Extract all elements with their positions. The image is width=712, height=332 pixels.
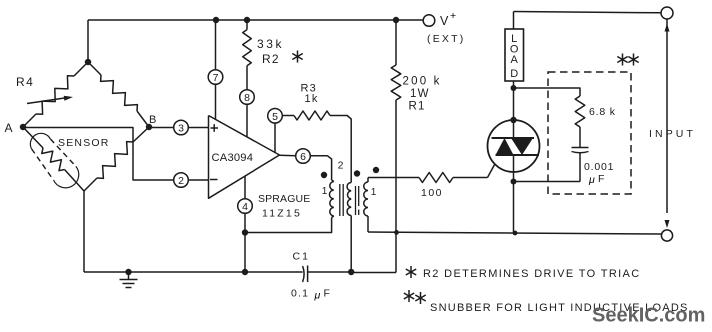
resistor 100 ohm gate: [368, 173, 488, 200]
node triac top terminal: [510, 117, 516, 123]
terminal input bottom: [661, 230, 672, 241]
svg-text:C1: C1: [293, 251, 310, 263]
pin 5 circle and wire: [268, 109, 283, 153]
resistor R3 1k: [282, 83, 351, 183]
wire triac gate: [488, 156, 500, 178]
wire node B to pin3: [149, 127, 174, 129]
svg-text:11Z15: 11Z15: [262, 208, 302, 220]
svg-text:1k: 1k: [305, 93, 319, 105]
node junction triac at AC line: [513, 231, 518, 236]
svg-text:1W: 1W: [410, 88, 430, 100]
svg-text:200 k: 200 k: [403, 76, 442, 88]
asterisk note marker at R2: [297, 51, 299, 63]
svg-text:(EXT): (EXT): [427, 33, 465, 45]
pin 2 circle: [174, 173, 209, 188]
svg-text:5: 5: [272, 111, 278, 123]
svg-text:7: 7: [213, 72, 219, 84]
transformer primary winding: [329, 180, 333, 218]
svg-text:SPRAGUE: SPRAGUE: [258, 193, 310, 205]
node junction winding2 at bottom rail: [348, 269, 354, 275]
svg-text:6.8 k: 6.8 k: [589, 106, 616, 118]
svg-text:V: V: [440, 14, 449, 28]
svg-text:μ: μ: [314, 290, 321, 302]
capacitor C1 0.1uF: [291, 251, 351, 302]
node junction snubber bottom: [511, 179, 517, 185]
svg-text:8: 8: [244, 92, 250, 104]
resistor bridge arm lower-right: [84, 127, 149, 191]
node junction R1 at AC line: [394, 230, 399, 235]
note asterisk R2 determines drive: [406, 266, 641, 280]
wire primary bottom to pin4 branch: [245, 218, 332, 233]
transformer phasing dot secondary: [373, 167, 379, 173]
node junction load bottom: [511, 85, 517, 91]
svg-text:R4: R4: [16, 75, 34, 89]
pin 7 circle and wire: [208, 20, 223, 120]
resistor bridge arm upper-right: [88, 62, 149, 127]
sensor dashed enclosure: [30, 133, 109, 187]
transformer secondary winding: [364, 178, 368, 233]
asterisk pair snubber marker: [617, 54, 638, 66]
transformer phasing dot primary: [321, 172, 327, 178]
svg-text:INPUT: INPUT: [649, 128, 696, 140]
node junction pin4 branch: [242, 229, 248, 235]
svg-text:F: F: [598, 173, 604, 185]
svg-text:SENSOR: SENSOR: [58, 137, 110, 149]
wire top supply rail: [88, 20, 423, 62]
wire bottom ground rail left of C1: [84, 271, 303, 273]
arrow input bottom: [665, 220, 670, 228]
transformer phasing dot winding2: [354, 170, 360, 176]
svg-text:100: 100: [421, 187, 443, 199]
svg-text:4: 4: [242, 201, 248, 213]
wire load top to input terminal: [514, 12, 662, 13]
label SPRAGUE 11Z15: [258, 193, 310, 220]
svg-text:2: 2: [178, 175, 184, 187]
svg-text:0.1: 0.1: [291, 288, 309, 300]
svg-text:1: 1: [322, 186, 328, 197]
svg-text:D: D: [510, 68, 518, 80]
svg-text:+: +: [450, 10, 456, 22]
sensor thermistor bridge arm lower-left: [23, 127, 84, 191]
svg-text:F: F: [324, 288, 330, 300]
svg-text:6: 6: [300, 151, 306, 163]
svg-text:33k: 33k: [257, 37, 284, 51]
triac Q1: [488, 120, 540, 172]
terminal input top: [661, 7, 673, 19]
load block: [505, 12, 524, 89]
op-amp U1 CA3094: [209, 116, 280, 199]
terminal V+ (EXT): [423, 10, 465, 45]
node junction R1 to rail: [393, 17, 399, 23]
svg-text:SeekIC.com: SeekIC.com: [592, 305, 705, 327]
resistor R2 3.3k: [243, 20, 284, 90]
node A: [5, 121, 27, 135]
svg-text:μ: μ: [588, 174, 595, 186]
wire secondary bottom AC line: [368, 232, 662, 234]
node junction pin4 line at bottom rail: [242, 269, 248, 275]
resistor R1 200k 1W: [351, 20, 441, 273]
svg-text:R1: R1: [409, 101, 426, 113]
ground symbol: [120, 269, 138, 288]
svg-text:R2 DETERMINES DRIVE TO TRIAC: R2 DETERMINES DRIVE TO TRIAC: [423, 268, 641, 280]
svg-text:A: A: [511, 54, 519, 66]
capacitor 0.001uF snubber: [572, 148, 615, 187]
svg-text:A: A: [5, 121, 13, 135]
svg-text:3: 3: [178, 123, 184, 135]
node junction pin7 wire to rail: [213, 17, 219, 23]
pin 6 circle and wires: [280, 149, 311, 164]
wire input line vertical: [665, 20, 670, 214]
svg-text:1: 1: [371, 187, 377, 198]
resistor R4 bridge arm upper-left (adjustable): [16, 62, 88, 127]
wire triac main terminal 1: [513, 172, 515, 233]
svg-text:R2: R2: [262, 52, 280, 66]
snubber dashed box: [548, 72, 631, 194]
node junction R2 to rail: [244, 17, 250, 23]
transformer core right pair: [356, 186, 359, 215]
wire bridge bottom to ground rail: [83, 191, 85, 272]
wire node A to pin2: [23, 128, 174, 181]
wire winding2 bottom stem: [350, 216, 352, 273]
transformer feedback winding 2: [347, 183, 351, 216]
pin 4 circle and wire: [238, 176, 253, 272]
note asterisks snubber: [404, 290, 689, 314]
node top of bridge: [85, 59, 91, 65]
resistor 6.8k snubber: [575, 96, 616, 147]
svg-text:0.001: 0.001: [584, 161, 614, 173]
transformer core left pair: [340, 184, 343, 216]
svg-text:2: 2: [338, 160, 344, 172]
wire snubber top: [514, 88, 581, 96]
svg-text:CA3094: CA3094: [212, 152, 254, 164]
wire snubber bottom: [514, 181, 581, 183]
node B: [146, 114, 157, 130]
wire triac main terminal 2: [513, 88, 515, 120]
svg-text:B: B: [149, 114, 156, 126]
pin 8 circle and wire: [240, 90, 255, 137]
pin 3 circle: [174, 120, 209, 135]
wire pin6 to primary: [310, 156, 331, 180]
